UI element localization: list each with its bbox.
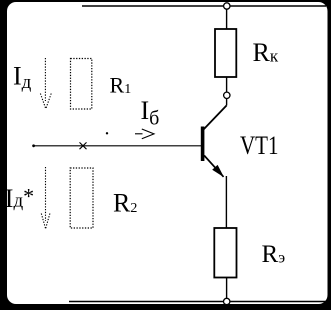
emitter arrowhead — [212, 165, 224, 177]
svg-text:VT1: VT1 — [240, 131, 279, 160]
node: collector output terminal — [224, 92, 230, 98]
emitter lead — [204, 156, 223, 177]
wire: top supply rail — [82, 5, 326, 7]
wire: emitter down — [225, 176, 227, 228]
resistor Re — [214, 228, 236, 278]
node: small dot on base wire — [106, 132, 108, 134]
resistor R2 (dashed equivalent) — [70, 168, 93, 228]
wire: Rk to collector node — [226, 77, 228, 106]
resistor Rk — [215, 29, 236, 77]
transistor VT1 — [201, 106, 227, 229]
wire: Re to bottom rail — [226, 278, 228, 302]
node: bottom supply terminal — [224, 298, 230, 304]
collector lead — [204, 106, 227, 130]
wire: Ib current arrow — [135, 129, 154, 139]
wire: bottom supply rail — [69, 301, 326, 303]
wire: base wire — [33, 145, 202, 147]
node: divider tap cross on base wire — [80, 142, 87, 149]
wire: top terminal to Rk — [226, 6, 228, 29]
resistor R1 (dashed equivalent) — [71, 59, 92, 110]
wire: Id current arrow (dashed) — [40, 58, 51, 109]
node: top supply terminal — [224, 3, 230, 9]
base bar — [201, 127, 205, 162]
wire: Id* current arrow (dashed) — [41, 167, 50, 229]
node: base wire start dot — [32, 144, 35, 147]
